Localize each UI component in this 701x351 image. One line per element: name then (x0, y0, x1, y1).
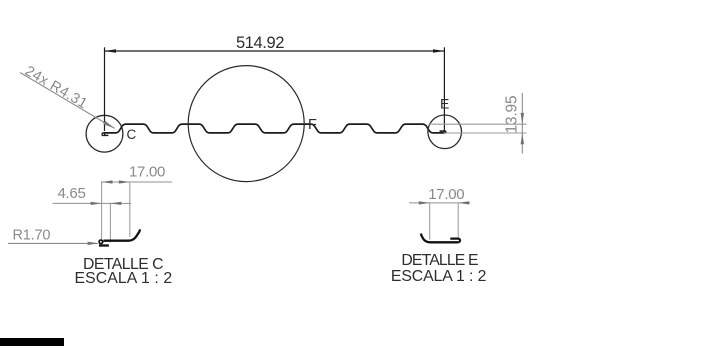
svg-text:514.92: 514.92 (236, 34, 284, 52)
svg-text:4.65: 4.65 (58, 185, 86, 202)
svg-text:ESCALA 1 : 2: ESCALA 1 : 2 (75, 270, 173, 287)
svg-text:F: F (308, 117, 317, 133)
svg-text:R1.70: R1.70 (13, 227, 51, 243)
svg-text:17.00: 17.00 (129, 163, 165, 180)
svg-text:C: C (127, 127, 137, 142)
svg-text:17.00: 17.00 (428, 186, 464, 203)
svg-text:DETALLE E: DETALLE E (401, 252, 478, 269)
svg-text:E: E (440, 95, 449, 111)
svg-text:13.95: 13.95 (503, 96, 520, 134)
svg-text:ESCALA 1 : 2: ESCALA 1 : 2 (391, 268, 486, 285)
